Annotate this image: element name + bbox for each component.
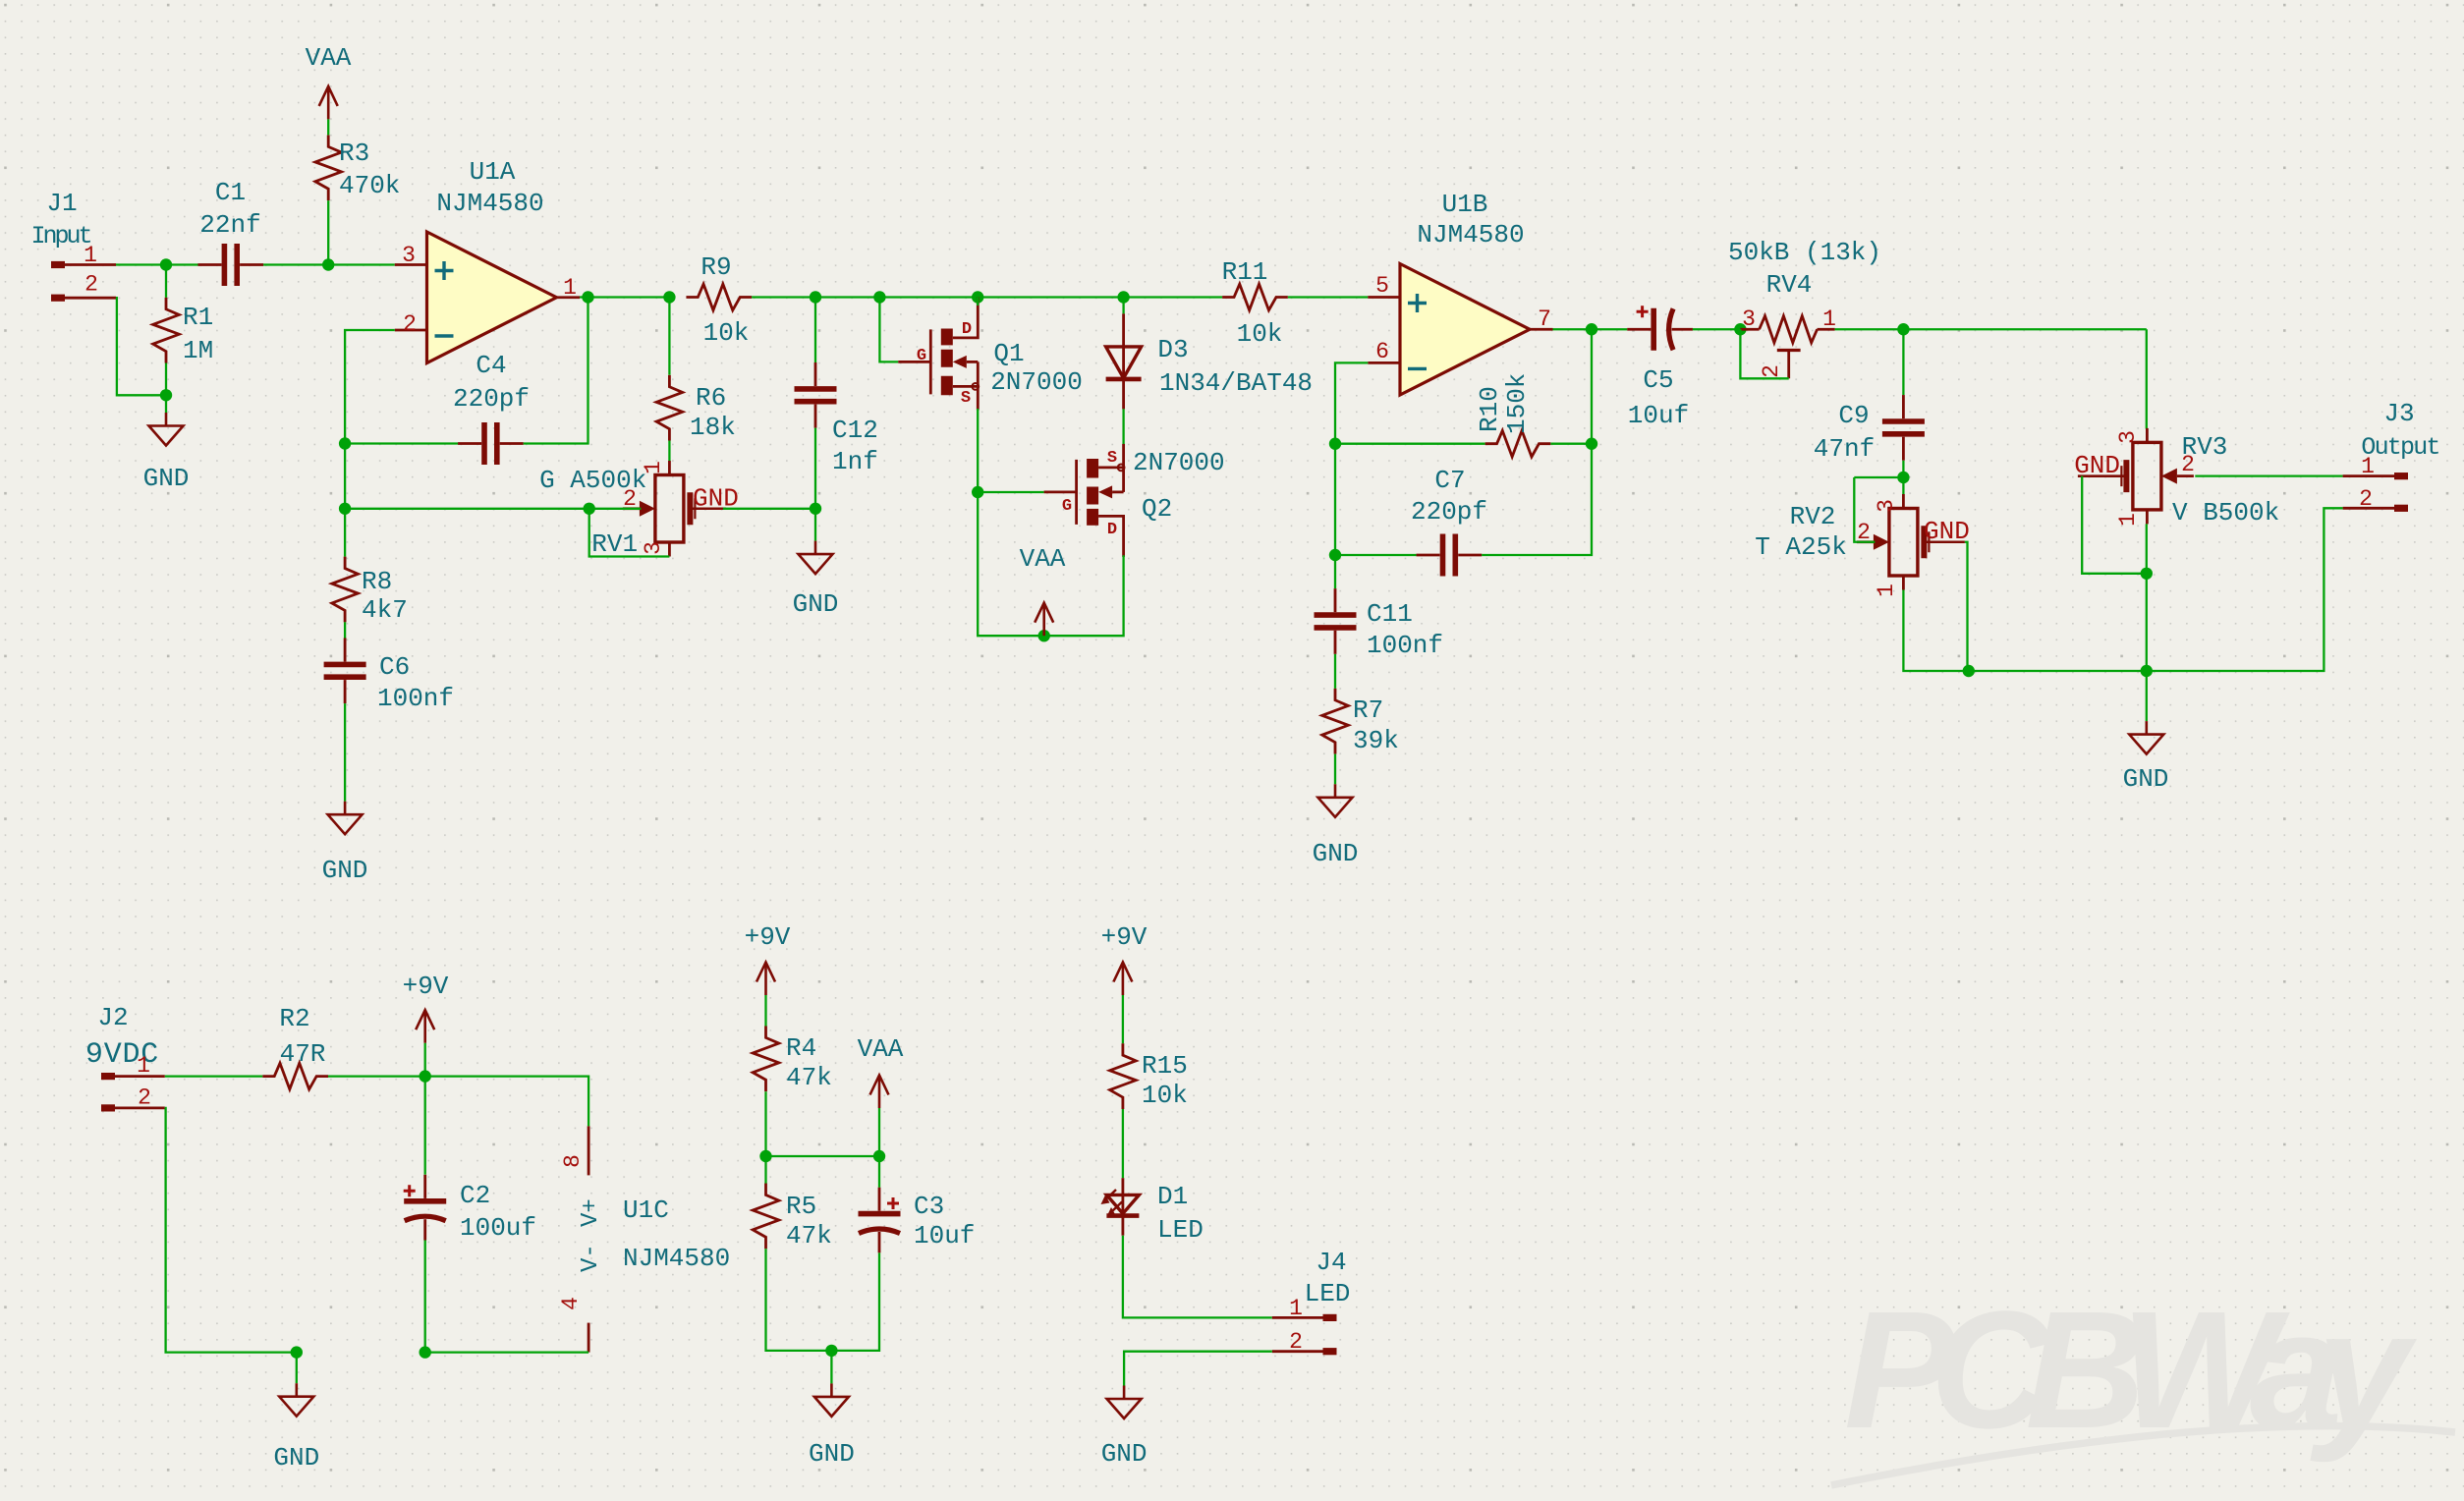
resistor R9 <box>686 284 752 310</box>
svg-text:3: 3 <box>1742 306 1756 332</box>
svg-text:VAA: VAA <box>858 1034 904 1064</box>
svg-text:C3: C3 <box>914 1192 944 1221</box>
connector J4 pin 1 pad <box>1323 1314 1337 1321</box>
junction +9V / C2 <box>420 1070 431 1082</box>
connector J4 pin 1 lead <box>1272 1316 1323 1319</box>
svg-text:VAA: VAA <box>306 43 352 73</box>
svg-text:1: 1 <box>2115 513 2141 527</box>
svg-text:1nf: 1nf <box>832 447 878 476</box>
svg-text:3: 3 <box>402 243 416 268</box>
junction Q1 drain <box>972 291 983 303</box>
svg-text:8: 8 <box>560 1154 586 1168</box>
svg-text:+9V: +9V <box>745 922 791 952</box>
wire U1A out to R6 tap <box>580 296 669 298</box>
junction GND tap left <box>291 1346 303 1358</box>
svg-text:V B500k: V B500k <box>2172 498 2279 528</box>
svg-text:R3: R3 <box>339 139 369 168</box>
resistor R11 <box>1222 284 1288 310</box>
junction bottom rail right <box>2141 665 2153 677</box>
svg-text:J2: J2 <box>97 1003 128 1032</box>
svg-text:D1: D1 <box>1157 1182 1188 1211</box>
power symbol +9V right <box>1113 963 1132 996</box>
junction RV4 pin3 <box>1734 323 1746 335</box>
junction RV1 wiper tee <box>584 503 595 515</box>
junction R4/R5 divider <box>759 1150 771 1162</box>
resistor R6 <box>656 375 683 441</box>
junction VAA tap <box>1038 630 1050 641</box>
svg-text:C11: C11 <box>1367 599 1413 629</box>
svg-text:GND: GND <box>1313 839 1359 868</box>
svg-text:S: S <box>1107 449 1117 468</box>
svg-text:C4: C4 <box>476 351 506 380</box>
svg-text:J3: J3 <box>2383 399 2414 428</box>
svg-text:C9: C9 <box>1838 401 1869 430</box>
capacitor C1 <box>197 244 263 286</box>
svg-text:5: 5 <box>1375 273 1389 299</box>
wire node A to C1 <box>167 263 198 265</box>
junction pin2/C4 left <box>339 437 351 449</box>
wire divider to VAA/C3 <box>766 1155 880 1157</box>
wire J3 pin2 to bottom rail <box>2147 508 2343 671</box>
wire VAA to R3 <box>327 119 329 135</box>
wire C5 to RV4 <box>1693 328 1741 330</box>
svg-text:C2: C2 <box>460 1181 490 1210</box>
svg-text:GND: GND <box>143 464 190 493</box>
svg-text:U1A: U1A <box>470 157 516 187</box>
junction C2 bottom <box>420 1346 431 1358</box>
svg-text:G A500k: G A500k <box>539 466 646 495</box>
svg-text:D3: D3 <box>1157 335 1188 364</box>
wire Q1 source down <box>977 409 979 492</box>
wire node A down to R1 <box>165 265 167 298</box>
wire R6 tap down <box>668 298 670 375</box>
wire D1 to J4 pin1 <box>1123 1236 1272 1318</box>
potentiometer RV3 <box>2078 428 2194 525</box>
svg-text:R7: R7 <box>1353 695 1383 725</box>
capacitor C4 <box>458 422 524 465</box>
capacitor C5 (polarized) <box>1627 306 1693 351</box>
junction R8 top / RV1 wiper row <box>339 503 351 515</box>
svg-text:LED: LED <box>1157 1215 1204 1245</box>
svg-text:47R: 47R <box>280 1039 326 1069</box>
resistor R10 <box>1485 430 1551 457</box>
wire D3 node to R11 <box>1124 296 1223 298</box>
svg-text:R11: R11 <box>1222 257 1268 287</box>
svg-text:GND: GND <box>809 1439 855 1469</box>
svg-text:C7: C7 <box>1434 466 1465 495</box>
svg-text:Q1: Q1 <box>993 339 1024 368</box>
wire C11 to R7 <box>1334 654 1336 689</box>
wire C7 to output column <box>1482 444 1592 555</box>
svg-text:100nf: 100nf <box>1367 631 1443 660</box>
connector J2 pin 1 lead <box>115 1075 165 1078</box>
wire down to R8 <box>344 509 346 557</box>
svg-text:C12: C12 <box>832 416 878 445</box>
resistor R7 <box>1322 689 1349 754</box>
wire to C4 <box>345 442 458 444</box>
svg-text:10uf: 10uf <box>914 1221 975 1251</box>
wire R4 to divider node <box>764 1091 766 1156</box>
svg-text:6: 6 <box>1375 339 1389 364</box>
svg-text:NJM4580: NJM4580 <box>1417 220 1524 250</box>
op-amp U1C pin 8 (V+) <box>588 1126 590 1175</box>
svg-text:39k: 39k <box>1353 726 1399 755</box>
svg-text:GND: GND <box>2074 451 2120 480</box>
svg-text:GND: GND <box>322 856 368 885</box>
svg-text:3: 3 <box>1874 499 1899 513</box>
wire C9 to RV2 node <box>1902 461 1904 477</box>
wire node B to U1A pin3 <box>328 263 395 265</box>
LED D1 <box>1101 1178 1140 1236</box>
svg-text:1: 1 <box>2361 454 2375 479</box>
wire RV3 pin1 down to bottom rail <box>2146 524 2148 671</box>
wire RV2 wiper branch top <box>1854 476 1903 478</box>
svg-text:R4: R4 <box>786 1033 816 1063</box>
capacitor C3 (polarized) <box>859 1188 901 1253</box>
connector J4 pin 2 lead <box>1272 1350 1323 1353</box>
junction U1B output <box>1586 323 1597 335</box>
svg-text:+9V: +9V <box>1101 922 1148 952</box>
svg-text:D: D <box>962 320 972 339</box>
svg-text:10k: 10k <box>1237 319 1283 349</box>
wire J4 pin2 to ground <box>1124 1352 1272 1386</box>
svg-text:2N7000: 2N7000 <box>990 367 1083 397</box>
wire to GND symbol left <box>296 1353 298 1384</box>
svg-text:LED: LED <box>1305 1279 1351 1308</box>
svg-text:100uf: 100uf <box>460 1213 536 1243</box>
capacitor C6 <box>324 638 366 703</box>
svg-text:2: 2 <box>138 1085 151 1111</box>
svg-text:D: D <box>1107 521 1117 539</box>
svg-text:47nf: 47nf <box>1814 434 1875 464</box>
wire to GND symbol <box>165 395 167 413</box>
wire R7 to ground <box>1334 754 1336 785</box>
svg-text:150k: 150k <box>1502 373 1532 434</box>
svg-text:VAA: VAA <box>1020 544 1066 574</box>
junction node B (C1/R3/U1A+) <box>322 258 334 270</box>
wire to Q1 drain node <box>879 296 978 298</box>
wire R3 to node B <box>327 200 329 264</box>
wire to R10 <box>1335 443 1485 445</box>
potentiometer RV2 <box>1857 494 1965 590</box>
svg-text:2: 2 <box>403 311 417 337</box>
svg-text:J4: J4 <box>1316 1248 1346 1277</box>
svg-text:10k: 10k <box>1142 1081 1188 1110</box>
svg-text:Input: Input <box>30 222 90 250</box>
ground symbol below C6 <box>328 802 363 835</box>
wire bottom rail to U1C pin4 <box>425 1351 588 1353</box>
junction VAA / C3 <box>873 1150 885 1162</box>
svg-text:10k: 10k <box>703 318 750 348</box>
svg-text:+9V: +9V <box>403 972 449 1001</box>
wire J1.1 to node A <box>116 263 167 265</box>
resistor R1 <box>153 298 180 363</box>
svg-text:V-: V- <box>578 1244 604 1272</box>
connector J1 pin 2 lead <box>65 297 116 300</box>
wire down to C9 <box>1902 329 1904 395</box>
wire down to RV2 wiper <box>1854 477 1875 542</box>
wire wiper feed to RV1 pin2 <box>589 508 642 510</box>
svg-text:R2: R2 <box>279 1004 309 1033</box>
svg-text:G: G <box>1062 497 1072 516</box>
wire main down to RV3 <box>2146 329 2148 428</box>
wire up to +9V symbol <box>424 1043 426 1077</box>
wire Q2 drain loop to gate node <box>978 492 1123 636</box>
svg-text:G: G <box>917 347 926 365</box>
wire to GND symbol middle <box>830 1351 832 1384</box>
svg-text:18k: 18k <box>690 413 736 442</box>
wire main to C12 <box>814 298 816 363</box>
wire J2.2 to bottom rail <box>165 1108 297 1353</box>
resistor R3 <box>315 135 342 200</box>
wire R5 to rail <box>766 1249 832 1351</box>
svg-text:1M: 1M <box>183 336 213 365</box>
svg-text:1: 1 <box>1874 584 1899 597</box>
wire C4 to U1A output <box>524 298 588 444</box>
svg-text:U1B: U1B <box>1442 190 1488 219</box>
wire output to C5 <box>1592 328 1627 330</box>
svg-text:3: 3 <box>641 541 666 555</box>
wire R11 to U1B pin5 <box>1288 296 1368 298</box>
connector J1 pin 2 pad <box>51 295 65 302</box>
junction C12 bottom / RV1 GND line <box>810 503 821 515</box>
svg-text:R8: R8 <box>362 567 392 596</box>
wire to Q2 gate <box>978 491 1043 493</box>
connector J4 pin 2 pad <box>1323 1348 1337 1355</box>
power symbol +9V middle <box>756 963 775 996</box>
op-amp U1C pin 4 (V-) <box>588 1323 590 1353</box>
wire VAA node to C3 <box>878 1156 880 1188</box>
svg-text:RV4: RV4 <box>1766 270 1813 300</box>
wire to C7 <box>1335 554 1417 556</box>
wire wiper row to RV1 <box>345 508 589 510</box>
connector J3 pin 2 lead <box>2343 507 2395 510</box>
junction R1 bottom / GND <box>160 389 172 401</box>
wire RV4 to RV3 column <box>1835 328 2147 330</box>
wire to D3 node <box>978 296 1123 298</box>
capacitor C12 <box>795 362 837 428</box>
svg-text:V+: V+ <box>578 1198 604 1227</box>
wire up to VAA symbol <box>878 1108 880 1156</box>
ground symbol below J4 <box>1107 1386 1142 1419</box>
svg-text:S: S <box>961 389 971 408</box>
connector J3 pin 1 lead <box>2343 474 2395 477</box>
svg-text:R1: R1 <box>183 303 213 332</box>
connector J1 pin 1 pad <box>51 261 65 268</box>
power symbol VAA at Q2 <box>1035 603 1053 637</box>
wire R6 to RV1 pin1 <box>668 441 670 462</box>
svg-text:7: 7 <box>1538 306 1551 332</box>
junction C7 left / C11 top <box>1329 549 1341 561</box>
svg-text:R10: R10 <box>1475 386 1504 432</box>
wire R15 to D1 <box>1122 1109 1124 1178</box>
wire U1B output <box>1553 328 1593 330</box>
ground symbol bottom left <box>279 1383 313 1417</box>
wire RV2 pin1 to bottom rail <box>1903 590 1968 672</box>
ground symbol below C12 <box>799 541 833 575</box>
junction C9 bottom / RV2 <box>1897 472 1909 483</box>
wire R9 to C12 node <box>752 296 815 298</box>
wire bottom rail to ground <box>2146 671 2148 721</box>
resistor R4 <box>753 1026 779 1091</box>
svg-text:R9: R9 <box>700 252 731 282</box>
svg-text:3: 3 <box>2115 430 2141 444</box>
connector J2 pin 2 pad <box>101 1104 115 1111</box>
junction C12 top <box>810 291 821 303</box>
svg-text:1: 1 <box>1822 306 1836 332</box>
wire gate tap down to Q1 gate <box>879 298 898 362</box>
capacitor C9 <box>1882 395 1925 461</box>
wire output down to R10 <box>1591 329 1593 443</box>
wire C6 to ground <box>344 703 346 802</box>
svg-text:1: 1 <box>563 275 577 301</box>
junction bottom rail left <box>1963 665 1975 677</box>
junction R6 tap <box>663 291 675 303</box>
power symbol VAA top <box>319 86 338 120</box>
wire RV3 trim side down <box>2082 476 2147 574</box>
wire +9V to R15 <box>1122 995 1124 1043</box>
svg-text:GND: GND <box>273 1443 319 1473</box>
junction U1A output / C4 feedback <box>582 291 593 303</box>
wire RV3 wiper to J3 pin1 <box>2195 474 2342 476</box>
wire +9V to R4 <box>764 995 766 1027</box>
svg-text:1: 1 <box>137 1053 150 1079</box>
svg-text:NJM4580: NJM4580 <box>436 189 543 218</box>
op-amp U1B <box>1400 264 1530 396</box>
svg-text:47k: 47k <box>786 1063 832 1092</box>
wire +9V node down to C2 <box>424 1077 426 1175</box>
svg-text:GND: GND <box>2123 764 2169 794</box>
svg-text:2: 2 <box>2359 486 2373 512</box>
diode D3 <box>1106 313 1142 409</box>
svg-text:R6: R6 <box>696 383 726 413</box>
wire J2.1 to R2 <box>165 1075 262 1077</box>
junction R10 right <box>1586 438 1597 450</box>
ground symbol below R1 <box>149 413 184 446</box>
transistor Q1 2N7000 <box>898 297 979 410</box>
wire R1 to ground node <box>165 363 167 396</box>
junction Q1 gate tap <box>873 291 885 303</box>
svg-text:47k: 47k <box>786 1221 832 1251</box>
resistor R5 <box>753 1184 779 1250</box>
resistor R2 <box>262 1063 328 1089</box>
connector J1 pin 1 lead <box>65 263 116 266</box>
junction D3 anode <box>1117 291 1129 303</box>
wire C3 to rail <box>831 1252 879 1351</box>
svg-text:2: 2 <box>1759 364 1784 378</box>
wire RV1 trim side to GND node <box>723 508 815 510</box>
connector J3 pin 1 pad <box>2394 473 2408 479</box>
svg-text:4k7: 4k7 <box>362 595 408 625</box>
svg-text:22nf: 22nf <box>199 210 260 240</box>
svg-text:RV3: RV3 <box>2182 432 2228 462</box>
svg-text:C1: C1 <box>215 178 246 207</box>
svg-text:2: 2 <box>84 272 98 298</box>
wire D3 cathode to Q2 source <box>1122 409 1124 444</box>
svg-text:2N7000: 2N7000 <box>1133 448 1225 477</box>
op-amp U1A <box>427 232 557 363</box>
svg-text:1: 1 <box>84 243 97 268</box>
wire C1 to node B <box>263 263 328 265</box>
svg-text:GND: GND <box>1924 517 1970 546</box>
junction GND tap middle <box>825 1345 837 1357</box>
svg-text:R15: R15 <box>1142 1051 1188 1081</box>
wire C4 row down to wiper row <box>344 444 346 509</box>
svg-text:GND: GND <box>793 589 839 619</box>
svg-text:4: 4 <box>558 1297 584 1310</box>
wire RV4 wiper to pin3 <box>1740 329 1788 378</box>
wire R8 to C6 <box>344 622 346 638</box>
wire C12 to GND node <box>814 428 816 509</box>
wire RV2 trim side to bottom rail <box>1965 542 2147 671</box>
svg-text:C5: C5 <box>1643 365 1673 395</box>
svg-text:J1: J1 <box>46 189 77 218</box>
svg-text:C6: C6 <box>379 652 410 682</box>
svg-text:U1C: U1C <box>623 1195 669 1225</box>
svg-text:2: 2 <box>1289 1329 1303 1355</box>
capacitor C2 (polarized) <box>404 1175 447 1241</box>
wire C7 node to C11 <box>1334 555 1336 588</box>
svg-text:220pf: 220pf <box>1411 497 1487 527</box>
power symbol +9V left <box>416 1010 434 1043</box>
svg-text:GND: GND <box>1101 1439 1148 1469</box>
capacitor C7 <box>1417 534 1483 577</box>
transistor Q2 2N7000 <box>1044 444 1125 557</box>
svg-text:RV1: RV1 <box>591 529 638 559</box>
svg-text:1: 1 <box>1289 1296 1303 1321</box>
wire down to C7 row <box>1334 444 1336 555</box>
ground symbol below R7 <box>1318 784 1353 817</box>
ground symbol bottom right <box>2129 721 2163 754</box>
wire to D3 anode <box>1122 298 1124 314</box>
connector J2 pin 1 pad <box>101 1073 115 1080</box>
svg-text:10uf: 10uf <box>1628 401 1689 430</box>
wire U1A pin2 to C4 row <box>345 330 395 444</box>
wire +9V node to U1C pin8 <box>425 1077 588 1127</box>
wire R2 to +9V node <box>328 1075 425 1077</box>
svg-text:RV2: RV2 <box>1790 502 1836 531</box>
svg-text:Q2: Q2 <box>1142 494 1172 524</box>
svg-text:1N34/BAT48: 1N34/BAT48 <box>1159 368 1313 398</box>
junction R10 left <box>1329 438 1341 450</box>
svg-text:NJM4580: NJM4580 <box>623 1244 730 1273</box>
svg-text:470k: 470k <box>339 171 400 200</box>
capacitor C11 <box>1315 588 1357 654</box>
potentiometer RV4 <box>1760 316 1818 343</box>
wire J1.2 down to R1 bottom <box>116 298 167 395</box>
junction C9 tap <box>1897 323 1909 335</box>
resistor R15 <box>1110 1043 1137 1109</box>
svg-text:220pf: 220pf <box>453 384 530 414</box>
wire to GND symbol <box>814 509 816 541</box>
wire Q1 drain stub <box>977 298 979 306</box>
svg-text:50kB (13k): 50kB (13k) <box>1728 238 1881 267</box>
svg-text:100nf: 100nf <box>377 684 454 713</box>
junction RV3 pin1 column <box>2141 568 2153 580</box>
wire R10 to output column <box>1550 443 1592 445</box>
ground symbol bottom middle <box>814 1383 849 1417</box>
junction Q1 source / Q2 gate <box>972 486 983 498</box>
potentiometer RV1 <box>623 461 726 557</box>
power symbol VAA middle <box>870 1076 889 1109</box>
resistor R8 <box>332 557 359 623</box>
wire divider to R5 <box>764 1156 766 1184</box>
junction node A (J1/C1/R1) <box>160 258 172 270</box>
wire to RV2 pin3 <box>1902 477 1904 494</box>
connector J2 pin 2 lead <box>115 1107 165 1110</box>
connector J3 pin 2 pad <box>2394 505 2408 512</box>
wire RV1 pin3 loop to wiper node <box>589 509 670 557</box>
